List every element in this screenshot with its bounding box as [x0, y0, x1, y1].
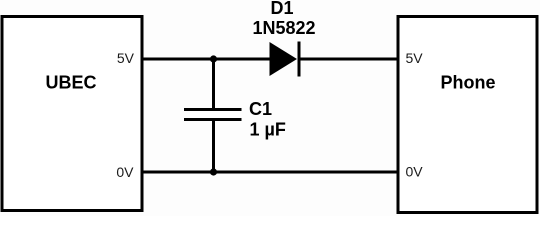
svg-text:Phone: Phone	[440, 73, 495, 93]
capacitor C1	[184, 110, 242, 120]
wire 0V: UBEC to Phone	[142, 171, 398, 174]
wire 5V: diode D1 cathode to Phone	[299, 58, 398, 61]
wire: 5V node down to C1 top plate	[212, 59, 215, 109]
svg-text:1N5822: 1N5822	[252, 18, 315, 38]
svg-text:5V: 5V	[406, 50, 424, 66]
svg-text:0V: 0V	[406, 164, 424, 180]
svg-text:1 µF: 1 µF	[250, 120, 286, 140]
svg-text:C1: C1	[249, 99, 272, 119]
svg-text:5V: 5V	[117, 50, 135, 66]
junction node 5V (wire to C1)	[210, 55, 217, 62]
junction node 0V (C1 return)	[210, 168, 217, 175]
block Phone	[398, 17, 537, 213]
block UBEC	[2, 17, 142, 211]
svg-text:UBEC: UBEC	[45, 73, 96, 93]
wire: C1 bottom plate down to 0V node	[212, 121, 215, 173]
svg-text:0V: 0V	[116, 164, 134, 180]
svg-text:D1: D1	[270, 0, 293, 18]
diode D1	[270, 42, 300, 77]
wire 5V: UBEC to diode D1 anode	[142, 58, 270, 61]
